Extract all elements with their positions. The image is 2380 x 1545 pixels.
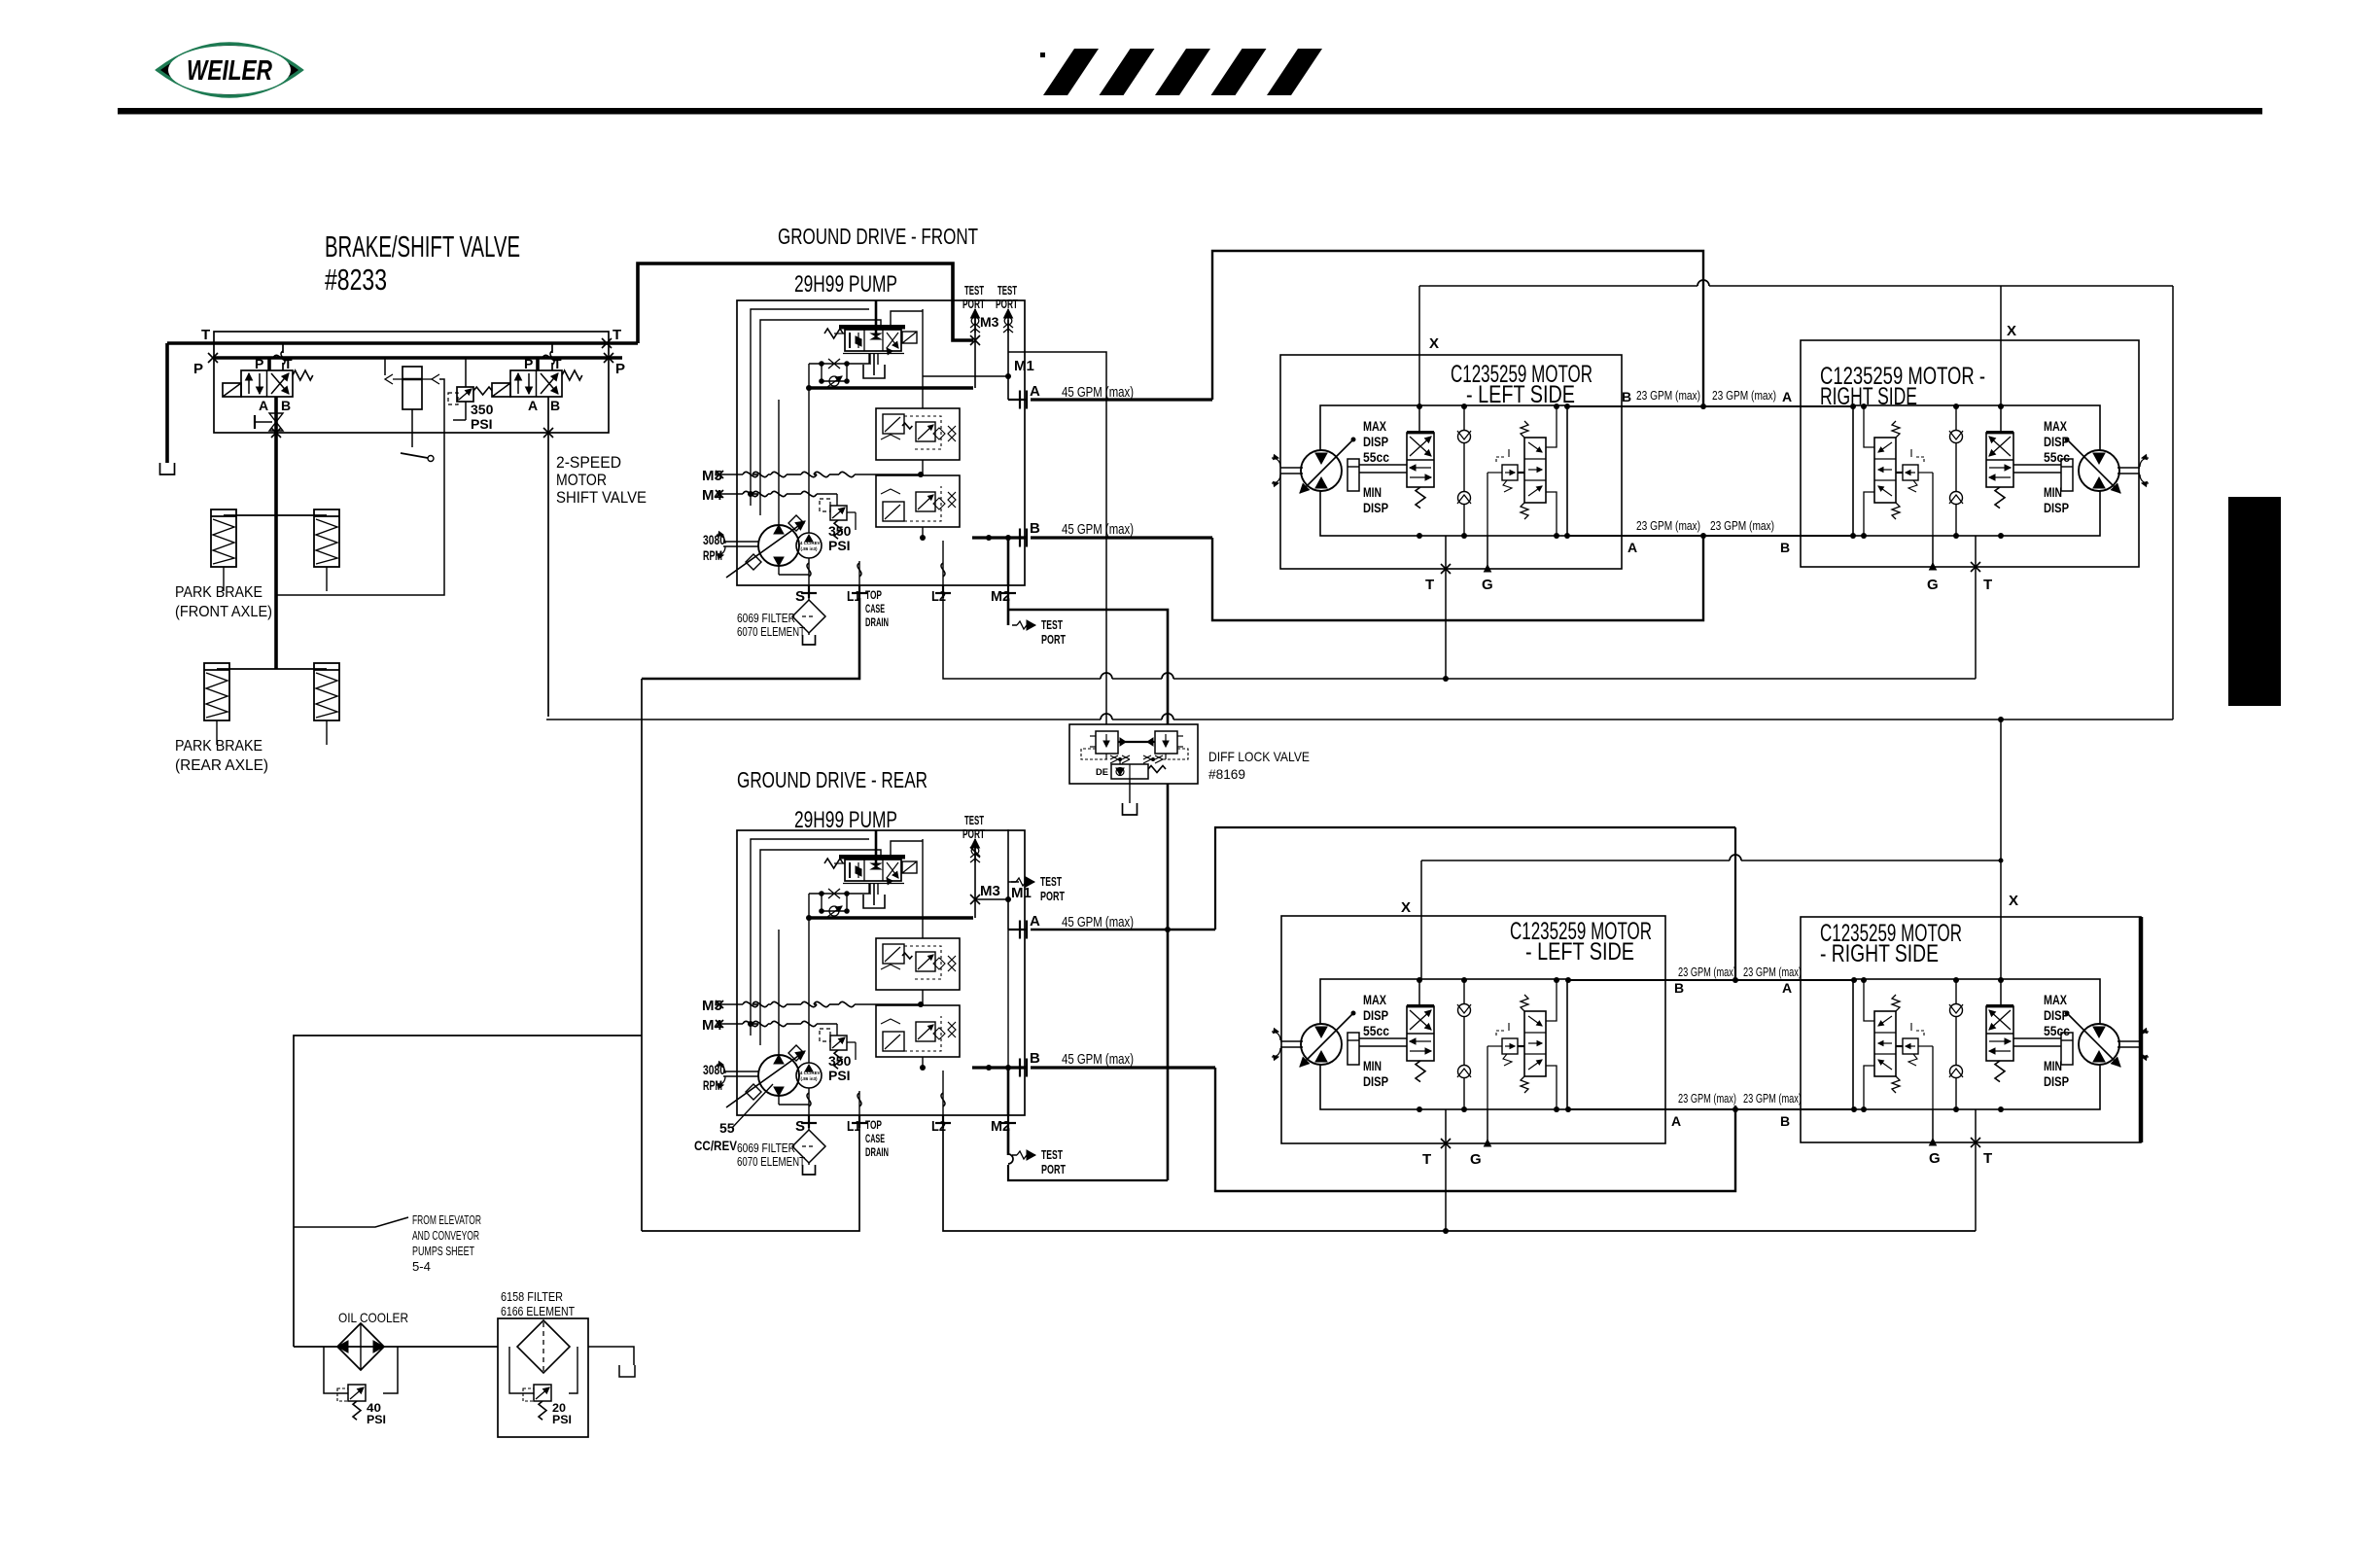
front M2/B branch to diff lock valve (thick): [1008, 610, 1168, 724]
motor min-disp servo piston: [1347, 459, 1359, 491]
svg-text:23 GPM (max): 23 GPM (max): [1743, 966, 1802, 979]
motor shaft: [1280, 467, 1303, 469]
from elevator and conveyor pumps line: [294, 1217, 408, 1227]
junction dots on rails: [1417, 977, 1422, 983]
counterbalance pilot valve: [1903, 465, 1918, 480]
shift valve spring: [1416, 487, 1425, 509]
pump rear valve solenoid: [902, 861, 917, 873]
svg-text:SHIFT VALVE: SHIFT VALVE: [556, 488, 647, 507]
svg-text:T: T: [1422, 1151, 1431, 1168]
front-right motor G port: [1932, 536, 1934, 567]
motor X pilot drop: [2000, 979, 2002, 1006]
motor min-disp servo piston: [2061, 1033, 2073, 1065]
motor displacement arrow: [2067, 1013, 2120, 1067]
svg-text:MAX: MAX: [1363, 993, 1386, 1007]
svg-text:TEST: TEST: [1040, 875, 1062, 889]
pump rear M4 gauge line: [716, 1020, 723, 1028]
T line left drop to tank: [165, 343, 169, 463]
svg-text:BRAKE/SHIFT VALVE: BRAKE/SHIFT VALVE: [325, 229, 520, 263]
svg-text:23 GPM (max): 23 GPM (max): [1636, 519, 1700, 533]
svg-text:#8169: #8169: [1208, 766, 1245, 782]
rear-left motor T drain: [1445, 1109, 1447, 1231]
svg-text:PSI: PSI: [828, 1068, 851, 1083]
svg-text:AND CONVEYOR: AND CONVEYOR: [412, 1229, 479, 1243]
svg-text:P: P: [193, 361, 203, 377]
junction dots on rails: [1998, 404, 2004, 409]
svg-text:B: B: [1674, 980, 1684, 996]
X junction T line at box right edge: [602, 338, 612, 348]
diff lock right solenoid valve: [1155, 731, 1177, 754]
SV1 P drop: [267, 358, 271, 370]
svg-text:S: S: [795, 588, 805, 605]
pump rear compensator box upper: [876, 938, 960, 990]
counterbalance springs: [1892, 995, 1900, 1011]
pump rear charge pump circle: [796, 1063, 822, 1088]
motor shaft: [2117, 1040, 2140, 1042]
svg-text:RPM: RPM: [703, 1077, 722, 1093]
counterbalance valve: [1874, 1011, 1896, 1076]
pump rear suction filter 6069/6070: [808, 1128, 810, 1130]
svg-text:PORT: PORT: [1041, 633, 1066, 647]
350 PSI relief in brake block: [457, 387, 473, 402]
front M1 to diff-lock pilot line: [1008, 352, 1106, 724]
rear-right motor T drain: [1975, 1109, 1977, 1231]
motor X pilot drop: [2000, 405, 2002, 433]
oil cooler diamond: [337, 1323, 384, 1370]
svg-text:PARK BRAKE: PARK BRAKE: [175, 584, 262, 601]
svg-text:GROUND DRIVE - REAR: GROUND DRIVE - REAR: [737, 767, 927, 792]
motor 2-speed shift valve: [1986, 1006, 2013, 1061]
front motor A-B link line bottom: [1567, 535, 1853, 537]
pump rear feed L-lines: [751, 839, 869, 1036]
valve body 4/2: [510, 370, 562, 397]
svg-text:PORT: PORT: [1041, 1163, 1066, 1176]
svg-text:M1: M1: [1011, 885, 1032, 901]
svg-text:23 GPM (max): 23 GPM (max): [1710, 519, 1774, 533]
rear A feed riser: [1215, 827, 1735, 930]
pump rear valve drain to tank: [869, 883, 871, 895]
svg-text:A: A: [259, 398, 268, 413]
svg-text:MAX: MAX: [2044, 419, 2067, 434]
counterbalance pilot valve: [1502, 465, 1518, 480]
svg-text:TOP: TOP: [865, 590, 882, 602]
svg-text:14 CC/REV: 14 CC/REV: [797, 1071, 820, 1075]
pump front B port line: [1019, 529, 1021, 547]
svg-text:RPM: RPM: [703, 547, 722, 563]
pump front 350 PSI relief: [830, 506, 847, 520]
diff lock check marks: [1110, 755, 1118, 759]
counterbalance springs: [1521, 995, 1528, 1011]
shift valve spring: [1995, 1061, 2005, 1082]
svg-text:T: T: [1983, 1150, 1992, 1167]
motor displacement arrow: [1300, 1013, 1353, 1067]
svg-text:WEILER: WEILER: [187, 55, 272, 87]
pump front suction filter 6069/6070: [808, 598, 810, 600]
svg-text:DISP: DISP: [2044, 1008, 2069, 1023]
oil cooler bypass relief 40 PSI: [324, 1347, 348, 1393]
rear-right motor G port: [1932, 1109, 1934, 1142]
svg-text:A: A: [1671, 1113, 1681, 1129]
front brake pair connector: [224, 514, 327, 516]
pump rear charge/control valve at top: [839, 855, 905, 860]
rear B feed dip: [1215, 1068, 1735, 1191]
pump front servo diamonds: [788, 515, 804, 531]
cylinder right arrow line down to brake trunk: [432, 374, 439, 384]
Weiler logo: [157, 44, 301, 96]
pump rear compensator box lower: [876, 1005, 960, 1057]
svg-text:T: T: [284, 356, 293, 371]
motor shaft: [1280, 1040, 1303, 1042]
junction dots on rails: [1417, 404, 1422, 409]
svg-text:S: S: [795, 1118, 805, 1135]
motor G pilot line: [1932, 1046, 1934, 1109]
svg-text:(.86 in3): (.86 in3): [800, 546, 818, 551]
svg-text:6158 FILTER: 6158 FILTER: [501, 1289, 563, 1304]
svg-text:CC/REV: CC/REV: [694, 1138, 738, 1153]
svg-text:MIN: MIN: [1363, 485, 1382, 500]
counterbalance springs: [1892, 421, 1900, 438]
motor min-disp servo piston: [1347, 1033, 1359, 1065]
SV1 T drop with jump over P line: [282, 343, 284, 353]
svg-text:DIFF LOCK VALVE: DIFF LOCK VALVE: [1208, 749, 1310, 764]
rear A port line: [1031, 929, 1215, 931]
manual shutoff valve on park brake line: [269, 413, 283, 422]
rear-right thick right edge: [2139, 917, 2144, 1142]
front A port line to riser (thick): [1031, 398, 1212, 401]
pump front internal supply risers: [778, 400, 780, 525]
shift valve spring: [1995, 487, 2005, 509]
front-left motor X drop from pilot line: [1418, 286, 1420, 405]
svg-text:- RIGHT SIDE: - RIGHT SIDE: [1820, 940, 1939, 967]
rear-left motor X drop: [1420, 860, 1422, 979]
motor inner envelope box: [1853, 405, 2100, 536]
svg-text:MIN: MIN: [1363, 1059, 1382, 1073]
svg-text:350: 350: [828, 1053, 852, 1069]
motor shaft: [2117, 467, 2140, 469]
main case drain trunk down the left: [641, 679, 643, 1231]
svg-text:DRAIN: DRAIN: [865, 1147, 889, 1159]
svg-text:(.86 in3): (.86 in3): [800, 1076, 818, 1081]
pump front A port line: [1008, 399, 1027, 401]
pump rear internal supply risers: [778, 930, 780, 1055]
svg-text:(REAR AXLE): (REAR AXLE): [175, 757, 268, 774]
svg-text:DISP: DISP: [1363, 1074, 1388, 1089]
svg-text:6069 FILTER: 6069 FILTER: [737, 612, 795, 625]
pump rear input shaft 3080 RPM: [723, 1071, 759, 1072]
svg-text:PORT: PORT: [996, 298, 1018, 311]
motor C1235259 front-left outer box: [1280, 355, 1622, 569]
front compensator gauge tap: [923, 375, 1008, 377]
svg-text:DISP: DISP: [2044, 501, 2069, 515]
motor displacement arrow: [1300, 439, 1353, 493]
pump front valve spring: [824, 329, 843, 338]
check valve pair: [1955, 980, 1957, 1109]
svg-text:6166 ELEMENT: 6166 ELEMENT: [501, 1304, 575, 1318]
svg-text:DISP: DISP: [1363, 1008, 1388, 1023]
svg-text:T: T: [553, 356, 562, 371]
return filter 6158/6166 box: [498, 1318, 588, 1437]
svg-text:B: B: [281, 398, 291, 413]
rear A drop between motors: [1734, 827, 1736, 980]
pump rear A port line: [1008, 929, 1027, 931]
front-right motor X drop: [2000, 286, 2002, 405]
pump front input shaft 3080 RPM: [723, 541, 759, 543]
T riser to front pump M3 (thick): up at x656, across y271, down x980: [638, 263, 973, 343]
svg-text:FROM ELEVATOR: FROM ELEVATOR: [412, 1213, 481, 1227]
svg-text:DRAIN: DRAIN: [865, 617, 889, 629]
svg-text:A: A: [1782, 389, 1792, 404]
motor 2-speed shift valve: [1407, 433, 1434, 487]
rear motor link line bottom: [1568, 1108, 1854, 1110]
front A supply riser and top run: [1212, 251, 1703, 406]
svg-text:G: G: [1482, 577, 1493, 593]
cylinder left arrow to P line: [385, 374, 393, 384]
rear L1 drain jog: [642, 1128, 859, 1231]
rear brake pair connector: [217, 668, 327, 670]
svg-text:T: T: [1983, 577, 1992, 593]
pump rear M3 test port riser: [974, 839, 976, 918]
front X pilot line across motors: [1419, 285, 1697, 287]
svg-text:23 GPM (max): 23 GPM (max): [1678, 1092, 1736, 1106]
solenoid: [492, 383, 510, 397]
svg-text:B: B: [1780, 1113, 1790, 1129]
svg-text:MIN: MIN: [2044, 485, 2062, 500]
svg-text:- LEFT SIDE: - LEFT SIDE: [1466, 381, 1575, 408]
svg-text:P: P: [615, 361, 625, 377]
motor rotary circle: [2079, 1024, 2119, 1065]
rear M3-M1 link: [975, 898, 1008, 900]
front-right motor T drain: [1975, 536, 1977, 679]
check valve pair: [1463, 406, 1465, 536]
svg-text:TEST: TEST: [997, 284, 1017, 298]
motor X pilot drop: [1418, 979, 1420, 1006]
svg-text:B: B: [1030, 520, 1040, 537]
pump rear M5 gauge line: [716, 1001, 723, 1008]
svg-text:B: B: [1780, 540, 1790, 555]
svg-text:PORT: PORT: [1040, 890, 1065, 903]
diff lock drain to tank: [1129, 779, 1131, 803]
rear T drain collector: [943, 1128, 1976, 1231]
motor 2-speed shift valve: [1986, 433, 2013, 487]
svg-text:L1: L1: [847, 1118, 860, 1135]
svg-text:P: P: [524, 356, 533, 371]
svg-text:PARK BRAKE: PARK BRAKE: [175, 738, 262, 755]
cooler return branch: [294, 1036, 642, 1347]
svg-text:5-4: 5-4: [412, 1260, 431, 1274]
svg-text:PORT: PORT: [962, 827, 985, 841]
valve spring: [293, 370, 313, 380]
solenoid: [223, 383, 241, 397]
pump front valve drain to tank: [869, 353, 871, 365]
svg-text:PUMPS SHEET: PUMPS SHEET: [412, 1245, 474, 1258]
svg-text:55cc: 55cc: [2044, 450, 2070, 465]
brake pedal master cylinder: [402, 367, 422, 409]
svg-text:45 GPM (max): 45 GPM (max): [1062, 914, 1134, 931]
check valve pair: [1955, 406, 1957, 536]
svg-text:29H99 PUMP: 29H99 PUMP: [794, 807, 897, 833]
svg-text:MOTOR: MOTOR: [556, 471, 607, 489]
svg-text:#8233: #8233: [325, 263, 387, 297]
valve body 4/2: [241, 370, 293, 397]
rear motor link line top: [1568, 979, 1854, 981]
pump 29H99 front outer box: [737, 300, 1025, 585]
rear M2 branch line: [1007, 1128, 1009, 1153]
rear-right motor X drop from front pilot line: [2000, 720, 2002, 979]
front-left motor G port: [1487, 536, 1488, 569]
svg-text:T: T: [201, 327, 210, 343]
svg-text:23 GPM (max): 23 GPM (max): [1678, 966, 1736, 979]
brake/shift valve box: [214, 332, 609, 433]
pump rear bottom ports S L1 L2 M2: [808, 918, 810, 1063]
svg-text:OIL COOLER: OIL COOLER: [338, 1310, 408, 1325]
diff lock pilot dashes: [1081, 749, 1188, 759]
T supply line (thick) across top of brake valve: [167, 341, 638, 345]
pump rear servo diamonds: [788, 1045, 804, 1061]
svg-text:M5: M5: [702, 998, 722, 1014]
pump front check/relief pair: [809, 363, 869, 365]
front T-drain collector: [943, 598, 1101, 679]
pump front valve solenoid: [902, 332, 917, 343]
front-left motor T drain: [1445, 536, 1447, 679]
front case drain trunk: L1 jog: [642, 598, 859, 679]
svg-text:PSI: PSI: [552, 1413, 572, 1426]
counterbalance valve: [1874, 438, 1896, 503]
right edge black tab: [2228, 497, 2281, 706]
svg-text:M1: M1: [1014, 358, 1034, 374]
2-speed pilot main run: [546, 719, 1101, 720]
pump front compensator box lower: [876, 475, 960, 527]
svg-text:M5: M5: [702, 468, 722, 484]
diff-lock M2 pilot continues to rear (thick): [1167, 784, 1170, 1180]
pump front compensator box upper: [876, 408, 960, 460]
front motor B-A link line top: [1567, 405, 1853, 407]
pump rear M2 test port branch: [1007, 1128, 1010, 1155]
SV2 T drop with jump: [551, 343, 553, 353]
counterbalance springs: [1521, 421, 1528, 438]
motor G pilot line: [1932, 473, 1934, 536]
svg-text:DISP: DISP: [2044, 1074, 2069, 1089]
svg-text:CASE: CASE: [865, 604, 885, 615]
svg-text:M4: M4: [702, 487, 722, 504]
diff lock cross link: [1118, 741, 1155, 743]
counterbalance pilot valve: [1903, 1038, 1918, 1054]
header rule: [118, 108, 2262, 115]
pump front feed L-lines: [751, 309, 869, 506]
svg-text:X: X: [1429, 335, 1439, 352]
svg-text:6070 ELEMENT: 6070 ELEMENT: [737, 625, 805, 639]
hazard stripes: [1043, 49, 1099, 95]
pump front main rotary group circle: [758, 525, 799, 566]
svg-text:DISP: DISP: [1363, 435, 1388, 449]
counterbalance valve: [1524, 438, 1546, 503]
svg-text:TEST: TEST: [1041, 1148, 1063, 1162]
motor rotary circle: [2079, 450, 2119, 491]
SV2 P drop: [536, 358, 540, 370]
pump 29H99 rear outer box: [737, 830, 1025, 1115]
svg-text:GROUND DRIVE - FRONT: GROUND DRIVE - FRONT: [778, 224, 978, 249]
svg-text:PSI: PSI: [367, 1413, 386, 1426]
motor displacement arrow: [2067, 439, 2120, 493]
check valve pair: [1463, 980, 1465, 1109]
pump rear B port line: [1019, 1059, 1021, 1077]
pump rear main rotary group circle: [758, 1055, 799, 1096]
svg-text:DISP: DISP: [2044, 435, 2069, 449]
svg-text:G: G: [1927, 577, 1939, 593]
svg-text:6069 FILTER: 6069 FILTER: [737, 1141, 795, 1155]
front pilot riser at far right: [2172, 286, 2174, 720]
X junction at box bottom: [271, 428, 281, 438]
pump rear variable displacement arrow: [726, 1051, 805, 1107]
svg-text:MAX: MAX: [2044, 993, 2067, 1007]
pump front bottom ports S L1 L2 M2: [808, 388, 810, 533]
diff lock valve #8169 box: [1069, 724, 1198, 784]
svg-text:- LEFT SIDE: - LEFT SIDE: [1525, 938, 1634, 966]
svg-text:29H99 PUMP: 29H99 PUMP: [794, 271, 897, 298]
pump front M2 test port branch: [1007, 598, 1010, 625]
svg-text:DISP: DISP: [1363, 501, 1388, 515]
svg-text:PORT: PORT: [962, 298, 985, 311]
pump front charge pump circle: [796, 533, 822, 558]
svg-text:X: X: [1401, 899, 1411, 916]
svg-text:T: T: [1425, 577, 1434, 593]
svg-text:MAX: MAX: [1363, 419, 1386, 434]
svg-text:55cc: 55cc: [2044, 1024, 2070, 1038]
svg-text:G: G: [1470, 1151, 1482, 1168]
park brake supply drop (thick) from SV1: [274, 397, 278, 669]
svg-text:A: A: [528, 398, 538, 413]
motor inner envelope box: [1320, 405, 1567, 536]
svg-text:45 GPM (max): 45 GPM (max): [1062, 1051, 1134, 1068]
svg-text:B: B: [550, 398, 560, 413]
filter outlet to tank: [588, 1347, 634, 1365]
motor inner envelope box: [1853, 979, 2100, 1109]
pump front variable displacement arrow: [726, 521, 805, 578]
svg-text:MIN: MIN: [2044, 1059, 2062, 1073]
pump rear valve spring: [824, 859, 843, 868]
svg-text:TEST: TEST: [1041, 618, 1063, 632]
pedal lever: [401, 453, 428, 458]
valve spring: [562, 370, 582, 380]
motor rotary circle: [1301, 450, 1342, 491]
svg-text:TEST: TEST: [964, 284, 984, 298]
svg-text:A: A: [1782, 980, 1792, 996]
svg-text:M3: M3: [980, 883, 1000, 899]
filter bypass relief 20 PSI: [509, 1347, 534, 1393]
P supply line (thick) inside valve box: [213, 356, 622, 360]
svg-text:CASE: CASE: [865, 1134, 885, 1145]
svg-text:B: B: [1030, 1050, 1040, 1067]
svg-text:23 GPM (max): 23 GPM (max): [1743, 1092, 1802, 1106]
shift valve spring: [1416, 1061, 1425, 1082]
svg-text:X: X: [2007, 323, 2016, 339]
svg-text:TOP: TOP: [865, 1120, 882, 1132]
motor 2-speed shift valve: [1407, 1006, 1434, 1061]
svg-text:PSI: PSI: [828, 538, 851, 553]
motor rotary circle: [1301, 1024, 1342, 1065]
svg-text:A: A: [1030, 913, 1040, 930]
pump front M1 gauge tee: [1004, 309, 1013, 318]
tank symbol left: [160, 463, 175, 474]
svg-text:(FRONT AXLE): (FRONT AXLE): [175, 604, 272, 620]
pump front M3 test port riser: [974, 309, 976, 388]
rear-left motor G port: [1487, 1109, 1488, 1143]
svg-text:TEST: TEST: [964, 814, 984, 827]
rear X pilot line: [1421, 860, 1730, 861]
diff lock shuttle valve bottom: [1111, 764, 1148, 779]
svg-text:X: X: [2009, 893, 2018, 909]
park brake rear axle cylinders: [204, 663, 229, 720]
front B supply dip run: [1212, 536, 1703, 620]
